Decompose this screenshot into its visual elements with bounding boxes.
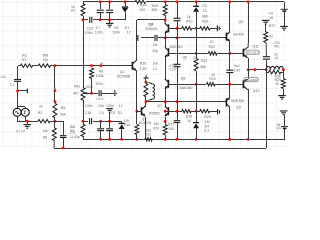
svg-text:C8: C8 [114, 26, 119, 30]
svg-text:R1: R1 [22, 58, 27, 62]
svg-text:Q7: Q7 [157, 104, 162, 108]
svg-text:100n: 100n [95, 82, 103, 86]
svg-text:10u: 10u [0, 75, 6, 79]
svg-text:Q6: Q6 [183, 56, 188, 60]
svg-text:MJE350: MJE350 [231, 99, 244, 103]
svg-text:R13: R13 [153, 126, 159, 130]
svg-text:10p: 10p [152, 49, 158, 53]
svg-text:R5: R5 [61, 106, 66, 110]
svg-text:1k: 1k [71, 5, 75, 9]
svg-text:Q1: Q1 [120, 70, 125, 74]
svg-text:1k: 1k [39, 104, 43, 108]
svg-text:10: 10 [275, 82, 279, 86]
svg-text:10u: 10u [153, 62, 159, 66]
svg-text:100k: 100k [86, 85, 94, 89]
svg-text:C7: C7 [96, 26, 101, 30]
svg-text:C15: C15 [87, 26, 93, 30]
svg-text:D1: D1 [125, 26, 130, 30]
svg-text:Q9: Q9 [238, 20, 243, 24]
svg-text:C14: C14 [96, 97, 102, 101]
svg-text:20: 20 [269, 34, 273, 38]
svg-text:10k: 10k [42, 129, 48, 133]
svg-text:3.3: 3.3 [204, 128, 209, 132]
svg-text:R2: R2 [38, 111, 43, 115]
svg-text:D2: D2 [118, 111, 123, 115]
svg-text:V3: V3 [269, 11, 273, 15]
svg-text:MJE350: MJE350 [180, 86, 193, 90]
svg-text:R20: R20 [204, 115, 210, 119]
svg-text:R6: R6 [43, 136, 47, 140]
svg-text:D3: D3 [202, 4, 207, 8]
svg-text:100k: 100k [96, 74, 104, 78]
svg-text:R4: R4 [43, 58, 48, 62]
svg-text:11.43p: 11.43p [70, 135, 80, 139]
svg-text:R30: R30 [140, 62, 146, 66]
svg-text:Q8: Q8 [181, 77, 186, 81]
svg-text:R7: R7 [71, 9, 76, 13]
svg-text:2N5401: 2N5401 [145, 27, 157, 31]
svg-text:L3: L3 [153, 67, 157, 71]
svg-text:BU406: BU406 [234, 32, 245, 36]
svg-text:R35: R35 [202, 20, 208, 24]
svg-text:V1 V2: V1 V2 [16, 130, 25, 134]
svg-text:1.3K: 1.3K [140, 67, 148, 71]
svg-text:Q9: Q9 [236, 106, 241, 110]
svg-text:BC547B: BC547B [139, 121, 152, 125]
svg-text:V4: V4 [276, 127, 280, 131]
svg-text:Q10: Q10 [253, 89, 260, 93]
svg-text:C42: C42 [234, 68, 240, 72]
svg-text:10n: 10n [98, 104, 104, 108]
svg-text:10: 10 [187, 119, 191, 123]
svg-text:16: 16 [269, 16, 273, 20]
svg-text:47u: 47u [274, 44, 280, 48]
svg-text:L2: L2 [275, 56, 279, 60]
svg-text:Q4: Q4 [149, 22, 154, 26]
svg-text:13: 13 [203, 9, 207, 13]
svg-text:2SA1300: 2SA1300 [245, 78, 258, 82]
svg-text:10: 10 [210, 40, 214, 44]
svg-text:MJE340: MJE340 [170, 45, 183, 49]
svg-text:Q5: Q5 [193, 56, 198, 60]
svg-text:R24: R24 [209, 77, 215, 81]
svg-text:R23: R23 [201, 59, 207, 63]
svg-text:1k2: 1k2 [21, 53, 27, 57]
svg-text:1k: 1k [187, 15, 191, 19]
svg-text:100n: 100n [112, 30, 120, 34]
svg-text:R19: R19 [186, 115, 192, 119]
svg-text:56k: 56k [200, 65, 206, 69]
svg-text:C6: C6 [153, 43, 158, 47]
svg-text:360: 360 [151, 8, 157, 12]
svg-text:30k: 30k [60, 113, 66, 117]
svg-text:C5: C5 [111, 111, 116, 115]
svg-text:R16: R16 [124, 123, 130, 127]
svg-text:R12: R12 [145, 132, 151, 136]
svg-text:R10: R10 [186, 20, 192, 24]
svg-text:BC546B: BC546B [117, 74, 131, 78]
svg-text:R27: R27 [269, 24, 275, 28]
svg-text:360: 360 [202, 15, 208, 19]
svg-text:6k8: 6k8 [43, 53, 49, 57]
svg-text:C4: C4 [99, 111, 104, 115]
svg-text:100n: 100n [85, 104, 93, 108]
svg-text:C16: C16 [85, 111, 91, 115]
svg-text:100n: 100n [95, 30, 103, 34]
svg-text:C1: C1 [10, 83, 15, 87]
svg-text:100n: 100n [85, 31, 93, 35]
svg-text:XR1: XR1 [74, 84, 81, 88]
svg-text:2N5551: 2N5551 [149, 111, 161, 115]
svg-text:100: 100 [154, 122, 160, 126]
svg-text:100: 100 [168, 127, 174, 131]
svg-text:2SC3571: 2SC3571 [247, 51, 260, 55]
svg-text:Q11: Q11 [253, 45, 259, 49]
svg-text:12: 12 [119, 104, 123, 108]
svg-text:100n: 100n [106, 104, 114, 108]
svg-text:R22: R22 [209, 45, 215, 49]
svg-text:100: 100 [139, 8, 145, 12]
svg-text:4K7: 4K7 [73, 91, 79, 95]
svg-text:C10: C10 [169, 68, 175, 72]
svg-text:R17: R17 [168, 123, 174, 127]
svg-text:12: 12 [127, 30, 131, 34]
svg-text:1M: 1M [205, 120, 210, 124]
